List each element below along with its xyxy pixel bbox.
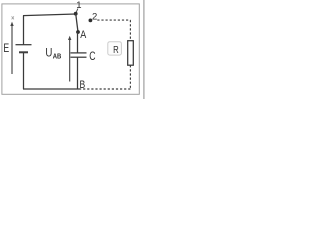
svg-text:AB: AB bbox=[53, 53, 62, 60]
leader tick label 1 to node bbox=[76, 9, 78, 12]
wire top rail bbox=[23, 14, 76, 16]
capacitor C plates bbox=[71, 52, 87, 54]
stray x mark bbox=[12, 16, 14, 19]
svg-text:2: 2 bbox=[92, 12, 97, 23]
node 1 bbox=[74, 12, 78, 16]
EMF direction arrow bbox=[10, 22, 13, 74]
wire capacitor to node B bbox=[77, 57, 79, 89]
node A bbox=[76, 30, 80, 34]
node 2 bbox=[89, 19, 93, 23]
wire node2 to R branch (dashed) bbox=[80, 20, 131, 89]
background bbox=[0, 0, 145, 99]
battery E plates bbox=[16, 44, 32, 46]
wire battery- down bbox=[23, 53, 25, 89]
svg-text:R: R bbox=[113, 44, 119, 56]
svg-text:C: C bbox=[89, 49, 96, 63]
wire bottom rail (solid) bbox=[23, 88, 80, 90]
wire battery+ to top rail bbox=[23, 16, 25, 45]
svg-text:E: E bbox=[3, 43, 9, 55]
svg-text:U: U bbox=[45, 45, 52, 59]
U_AB voltage arrow bbox=[68, 36, 71, 82]
switch lever 1-A bbox=[76, 14, 78, 32]
outer frame bbox=[2, 4, 139, 94]
resistor R bbox=[128, 41, 134, 65]
R label box bbox=[108, 42, 122, 55]
svg-text:A: A bbox=[80, 29, 87, 41]
page border line (right) bbox=[143, 0, 145, 99]
wire A to capacitor bbox=[77, 32, 79, 53]
